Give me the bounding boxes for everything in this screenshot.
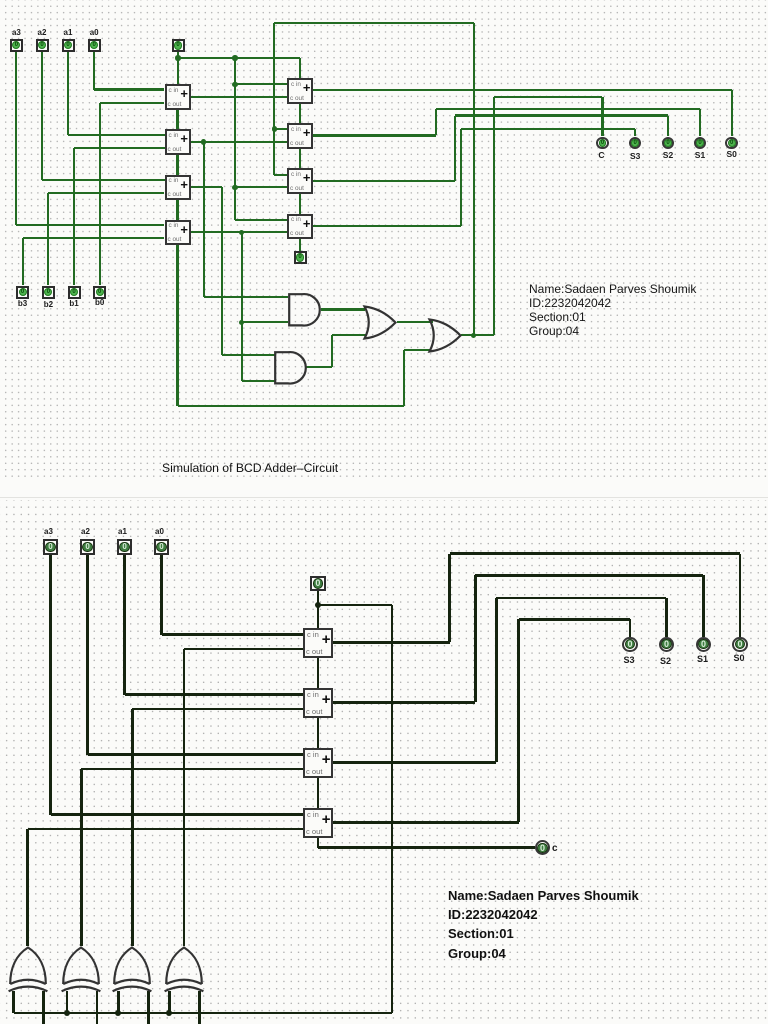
label S3: [623, 151, 647, 161]
input pin a3 (bottom): [43, 539, 58, 554]
wire cin0 pin to adder L1 cin: [177, 52, 179, 85]
input pin a3: [10, 39, 23, 52]
label S2: [656, 150, 680, 160]
wire b3 to adder L4 B: [23, 237, 165, 239]
wire cin0 branch right: [178, 57, 300, 59]
wire B1 sum rise: [448, 554, 451, 643]
wire S3 drop: [629, 619, 632, 637]
wire B2 cout to B3 cin: [317, 718, 320, 748]
label S0: [727, 653, 751, 663]
wire zero net to R3 B: [235, 186, 287, 188]
label b1: [62, 299, 86, 308]
label a3: [4, 28, 28, 37]
wire zero net drop: [234, 58, 236, 220]
adder R3: [287, 168, 313, 194]
wire B3 sum to S2: [496, 597, 666, 600]
wire L2 sum to R2 B: [191, 141, 288, 143]
wire a2 down: [86, 555, 89, 755]
adder L1: [165, 84, 191, 110]
wire C drop: [601, 97, 603, 136]
adder L3: [165, 175, 191, 201]
wire XOR4 right leg: [198, 991, 201, 1024]
wire L3 sum into AND2 A: [222, 354, 275, 356]
adder L2: [165, 129, 191, 155]
wire b0 to adder L1 B: [100, 102, 165, 104]
output pin C: [596, 137, 609, 150]
wire carry bus bottom: [178, 405, 404, 407]
input pin carry-in 0: [172, 39, 185, 52]
wire R4 sum rise: [460, 129, 462, 226]
text annotation name block (top): [529, 282, 696, 338]
adder B3: [303, 748, 333, 778]
junction cin0 split: [175, 55, 180, 60]
wire a0 down: [160, 555, 163, 635]
wire B2 sum rise: [474, 575, 477, 702]
label S1: [691, 654, 715, 664]
AND gate G2: [274, 351, 307, 385]
input pin a0: [88, 39, 101, 52]
output pin S2: [662, 137, 675, 150]
wire correction rise: [473, 23, 475, 336]
wire XOR2 to B3 B: [81, 768, 303, 771]
wire R4 sum right: [313, 225, 461, 227]
output pin S1 (bottom): [696, 637, 711, 652]
wire a0 down: [93, 52, 95, 90]
wire XOR2 out up: [80, 769, 83, 946]
junction L2 sum tap: [201, 139, 206, 144]
junction zero to R1 A: [232, 82, 237, 87]
wire OR1 out to OR2 A: [397, 321, 434, 323]
wire S0 drop: [739, 554, 742, 637]
label S2: [654, 656, 678, 666]
wire B3 sum right: [333, 761, 496, 764]
output pin S3: [629, 137, 642, 150]
wire R4 sum to S3: [461, 128, 635, 130]
wire carry out rise: [493, 97, 495, 335]
wire B2 sum right: [333, 701, 475, 704]
label S1: [688, 150, 712, 160]
output pin S0 (bottom): [732, 637, 747, 652]
label b3: [11, 299, 35, 308]
input pin a2: [36, 39, 49, 52]
wire zero net to R4 A: [235, 219, 287, 221]
wire a1 down: [67, 52, 69, 135]
wire L4 cout down: [176, 245, 178, 406]
wire b1 up: [73, 148, 75, 286]
AND gate G1: [288, 293, 321, 327]
wire a3 to adder L4 A: [16, 224, 164, 226]
text annotation name block (bottom): [448, 886, 639, 963]
wire AND2 out right: [306, 366, 332, 368]
wire carry to C: [494, 96, 603, 98]
wire AND1 out to OR1 A: [321, 308, 365, 310]
wire R4 cout to pin: [299, 239, 301, 252]
output pin S3 (bottom): [622, 637, 637, 652]
wire XOR1 to B4 B: [28, 828, 303, 831]
wire a3 to B4 A: [51, 813, 304, 816]
label a3: [37, 527, 61, 536]
wire XOR3 right leg: [147, 991, 150, 1024]
wire b3 up: [22, 238, 24, 285]
wire XOR2 right leg: [96, 991, 99, 1024]
wire zero net to R1 A: [235, 83, 287, 85]
input pin b2: [42, 286, 55, 299]
OR gate G4: [428, 318, 462, 353]
wire XOR3 to B2 B: [132, 708, 303, 711]
wire a2 to B3 A: [88, 753, 304, 756]
wire R3 sum rise: [454, 116, 456, 181]
wire L4 sum drop: [241, 232, 243, 380]
input pin a1: [62, 39, 75, 52]
wire L1 cout to L2 cin: [176, 110, 178, 130]
adder R4: [287, 214, 313, 240]
wire zero pin down: [317, 591, 320, 628]
input pin control 0 (bottom): [310, 576, 326, 592]
wire XOR1 right leg: [42, 991, 45, 1024]
wire S2 drop: [667, 116, 669, 137]
wire L3 sum drop to AND2 A: [221, 187, 223, 354]
separator line between the two schematic screenshots: [0, 497, 768, 498]
label a0: [148, 527, 172, 536]
junction XOR4 leg tap: [166, 1010, 172, 1016]
wire xor bias bus: [14, 1012, 392, 1015]
wire zero branch right: [318, 604, 392, 607]
wire OR2 out right: [461, 334, 494, 336]
wire S1 drop: [699, 109, 701, 137]
wire XOR4 to B1 B: [184, 648, 303, 651]
wire S3 drop: [634, 129, 636, 136]
junction AND1 B tap: [239, 320, 244, 325]
wire B4 sum to S3: [519, 618, 630, 621]
wire L3 sum right: [191, 186, 223, 188]
wire R1 cout to R2 cin: [299, 104, 301, 124]
wire B2 sum to S1: [475, 574, 703, 577]
input pin b1: [68, 286, 81, 299]
wire a3 down: [15, 52, 17, 226]
wire R3 cout to R4 cin: [299, 194, 301, 214]
wire L4 sum to R4 B: [191, 231, 288, 233]
wire R2 cout to R3 cin: [299, 149, 301, 169]
wire B1 sum right: [333, 641, 450, 644]
wire carry rise to OR2: [403, 350, 405, 407]
wire XOR1 out up: [26, 829, 29, 946]
wire AND2 out to OR1 B: [332, 334, 366, 336]
wire B1 sum to S0: [450, 552, 741, 555]
junction OR2 out node: [471, 333, 476, 338]
label a2: [74, 527, 98, 536]
input pin b0: [93, 286, 106, 299]
wire R1 sum to S0: [313, 89, 732, 91]
XOR gate X2: [61, 946, 101, 996]
wire AND2 out rise: [331, 335, 333, 367]
junction correction R2 tap: [272, 126, 277, 131]
junction L4 sum tap: [239, 230, 244, 235]
wire correction drop: [273, 23, 275, 176]
adder B4: [303, 808, 333, 838]
label b2: [36, 300, 60, 309]
wire correction top run: [274, 22, 473, 24]
adder R2: [287, 123, 313, 149]
label S3: [617, 655, 641, 665]
output pin S0: [725, 137, 738, 150]
junction zero pin split: [315, 602, 321, 608]
wire a3 down: [49, 555, 52, 815]
wire b2 to adder L3 B: [48, 192, 164, 194]
wire correction to R3 A: [274, 174, 287, 176]
wire a2 to adder L3 A: [42, 179, 165, 181]
wire XOR1 left leg: [12, 991, 15, 1014]
label C: [590, 150, 614, 160]
label S0: [720, 149, 744, 159]
wire carry to c pin: [318, 846, 535, 849]
label c: [552, 843, 558, 854]
wire correction to R2 A: [274, 128, 287, 130]
wire b1 to adder L2 B: [74, 147, 165, 149]
wire XOR2 left leg: [66, 991, 69, 1014]
caption between circuits: [162, 461, 338, 475]
XOR gate X3: [112, 946, 152, 996]
input pin carry-out unused: [294, 251, 307, 264]
XOR gate X4: [164, 946, 204, 996]
input pin a2 (bottom): [80, 539, 95, 554]
junction zero to R3 B: [232, 185, 237, 190]
wire XOR4 out up: [183, 649, 186, 946]
junction XOR3 leg tap: [115, 1010, 121, 1016]
wire XOR3 left leg: [117, 991, 120, 1014]
adder B1: [303, 628, 333, 658]
output pin S2 (bottom): [659, 637, 674, 652]
label a0: [82, 28, 106, 37]
XOR gate X1: [8, 946, 48, 996]
junction zero net tap: [232, 55, 237, 60]
wire a1 down: [123, 555, 126, 695]
wire S2 drop: [665, 598, 668, 637]
wire carry to OR2 B: [404, 349, 432, 351]
wire L3 cout to L4 cin: [176, 200, 178, 220]
wire L4 sum into AND1 B: [242, 321, 289, 323]
wire B4 sum rise: [517, 619, 520, 822]
label b0: [88, 298, 112, 307]
wire a0 to adder L1 A: [94, 88, 164, 90]
wire R3 sum to S2: [455, 114, 668, 116]
wire B4 cout down: [317, 838, 320, 848]
wire b0 up: [99, 103, 101, 286]
wire zero drop right side: [391, 605, 394, 1013]
output pin S1: [694, 137, 707, 150]
wire B3 cout to B4 cin: [317, 778, 320, 808]
wire a1 to adder L2 A: [68, 134, 165, 136]
input pin b3: [16, 286, 29, 299]
wire B4 sum right: [333, 821, 519, 824]
wire a0 to B1 A: [162, 633, 304, 636]
input pin a0 (bottom): [154, 539, 169, 554]
adder B2: [303, 688, 333, 718]
input pin a1 (bottom): [117, 539, 132, 554]
wire cin0 to adder R1 cin: [299, 58, 301, 78]
wire R2 sum right: [313, 134, 436, 136]
adder L4: [165, 220, 191, 246]
wire S1 drop: [702, 575, 705, 637]
wire b2 up: [47, 193, 49, 285]
wire L2 cout to L3 cin: [176, 155, 178, 175]
wire R2 sum to S1: [436, 108, 700, 110]
junction XOR2 leg tap: [64, 1010, 70, 1016]
wire L4 sum into AND2 B: [242, 380, 275, 382]
wire XOR4 left leg: [168, 991, 171, 1014]
wire L1 sum to R1 B: [191, 96, 288, 98]
wire XOR3 out up: [131, 709, 134, 946]
wire R3 sum right: [313, 180, 455, 182]
wire L2 sum into AND1 A: [204, 296, 289, 298]
output pin c (bottom): [535, 840, 550, 855]
OR gate G3: [363, 305, 397, 340]
adder R1: [287, 78, 313, 104]
label a1: [56, 28, 80, 37]
wire B1 cout to B2 cin: [317, 658, 320, 688]
wire B3 sum rise: [495, 598, 498, 762]
wire a1 to B2 A: [125, 693, 304, 696]
label a2: [30, 28, 54, 37]
wire R2 sum rise: [435, 109, 437, 136]
wire a2 down: [41, 52, 43, 181]
label a1: [111, 527, 135, 536]
wire L2 sum drop to AND1 A: [203, 142, 205, 297]
wire S0 drop: [731, 90, 733, 136]
